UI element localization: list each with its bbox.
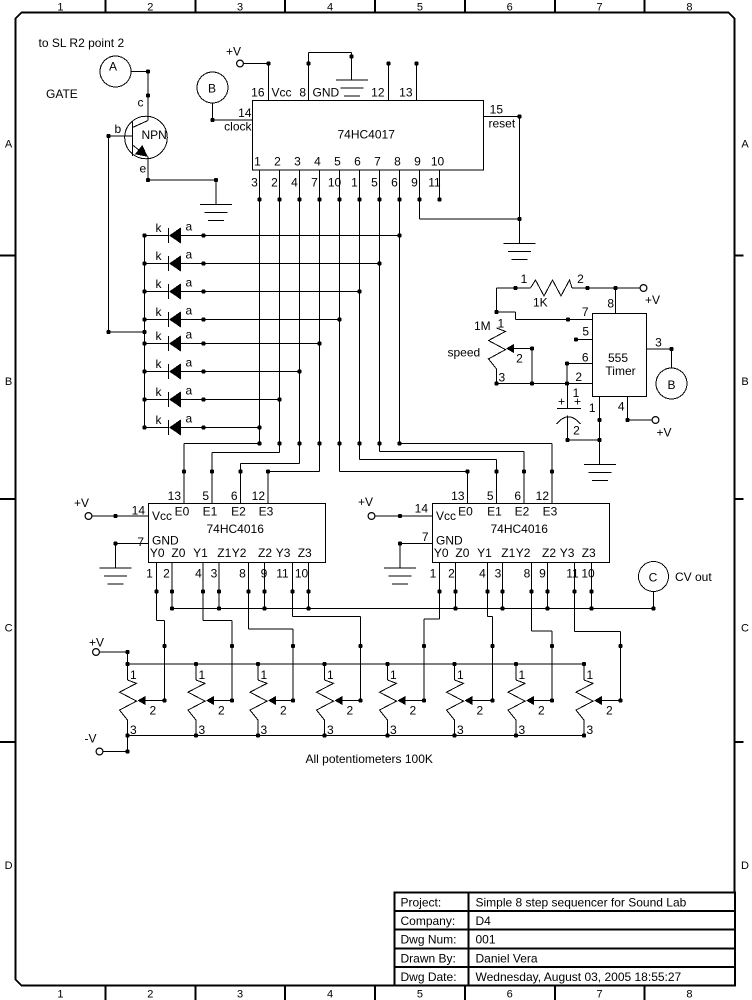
junction anode row 7 bbox=[201, 397, 205, 401]
svg-text:7: 7 bbox=[422, 530, 429, 544]
junction wiper column R7 bbox=[550, 644, 554, 648]
wire 1M top to U4 pin 7 bbox=[497, 312, 593, 320]
svg-text:8: 8 bbox=[686, 2, 692, 14]
ground (U3 pin 7) bbox=[384, 568, 416, 584]
junction R10 wiper bottom bbox=[530, 381, 534, 385]
svg-text:74HC4017: 74HC4017 bbox=[338, 128, 396, 142]
svg-text:5: 5 bbox=[202, 489, 209, 503]
LED cathode rail bbox=[144, 236, 146, 428]
junction column 5 staircase bbox=[337, 441, 341, 445]
svg-text:+V: +V bbox=[226, 45, 241, 59]
junction column 7 top bbox=[377, 197, 381, 201]
wire U3 Y3 to pot R8 wiper bbox=[575, 563, 621, 701]
wire U3 Z1 to CV bus bbox=[502, 563, 504, 609]
svg-text:2: 2 bbox=[147, 2, 153, 14]
wire U3 Y2 to pot R7 wiper bbox=[532, 563, 553, 701]
anode wire row 7 bbox=[181, 399, 280, 401]
junction column row 4 bbox=[337, 317, 341, 321]
junction U2 Z2 stub bbox=[262, 589, 266, 593]
junction wiper R1 bbox=[162, 698, 166, 702]
junction U2 Y1 stub bbox=[201, 589, 205, 593]
svg-text:k: k bbox=[156, 329, 163, 343]
svg-text:c: c bbox=[138, 96, 144, 110]
wire U1 output column 5 bbox=[339, 170, 341, 472]
junction anode row 8 bbox=[201, 425, 205, 429]
capacitor C1 electrolytic bbox=[557, 384, 582, 441]
svg-text:k: k bbox=[156, 305, 163, 319]
svg-text:a: a bbox=[186, 356, 193, 370]
svg-text:E0: E0 bbox=[458, 505, 473, 519]
junction U3 Z3 stub bbox=[589, 589, 593, 593]
svg-text:74HC4016: 74HC4016 bbox=[207, 522, 265, 536]
junction R1 top rail bbox=[125, 662, 129, 666]
junction wiper R2 bbox=[230, 698, 234, 702]
svg-text:+: + bbox=[558, 395, 565, 409]
base wire bbox=[109, 135, 133, 137]
svg-text:6: 6 bbox=[231, 489, 238, 503]
svg-text:6: 6 bbox=[507, 2, 513, 14]
junction column row 6 bbox=[297, 369, 301, 373]
svg-text:2: 2 bbox=[218, 704, 225, 718]
svg-text:12: 12 bbox=[536, 489, 550, 503]
junction pin16 wire bbox=[266, 61, 270, 65]
junction clock wire bbox=[210, 118, 214, 122]
svg-text:E2: E2 bbox=[231, 505, 246, 519]
junction E2 stub U3 bbox=[522, 469, 526, 473]
wire column 4 to U2 E3 bbox=[268, 471, 320, 473]
pot +V rail bbox=[128, 663, 585, 665]
svg-text:k: k bbox=[156, 221, 163, 235]
wire U2 Y0 to pot R1 wiper bbox=[157, 563, 165, 701]
wire U1 output column 8 bbox=[399, 170, 401, 444]
wire U1 output column 6 bbox=[359, 170, 361, 460]
wire column 1 to U2 E0 bbox=[184, 443, 260, 445]
svg-text:A: A bbox=[5, 139, 13, 151]
svg-text:Z0: Z0 bbox=[171, 546, 185, 560]
potentiometer R1 100K bbox=[120, 664, 165, 737]
junction U3 Z2 stub bbox=[545, 589, 549, 593]
svg-text:7: 7 bbox=[137, 535, 144, 549]
svg-text:14: 14 bbox=[132, 504, 146, 518]
svg-text:E1: E1 bbox=[203, 505, 218, 519]
junction anode row 6 bbox=[201, 369, 205, 373]
svg-text:2: 2 bbox=[150, 704, 157, 718]
potentiometer R3 100K bbox=[250, 664, 293, 737]
anode wire row 2 bbox=[181, 263, 380, 265]
svg-text:Y2: Y2 bbox=[516, 546, 531, 560]
wire -V to rail bbox=[103, 736, 128, 752]
junction anode row 1 bbox=[201, 233, 205, 237]
power +V for U4 pin 8 bbox=[640, 285, 660, 307]
junction wiper column R2 bbox=[230, 644, 234, 648]
svg-text:7: 7 bbox=[582, 305, 589, 319]
junction U3 Y0 stub bbox=[437, 589, 441, 593]
svg-text:3: 3 bbox=[237, 2, 243, 14]
wire pin 15 reset bbox=[484, 116, 520, 118]
junction U3 Z2 bus bbox=[545, 606, 549, 610]
potentiometer R7 100K bbox=[508, 664, 552, 737]
junction anode row 5 bbox=[201, 341, 205, 345]
wire B to 4017 pin 14 bbox=[213, 103, 253, 120]
wire U2 Z2 to CV bus bbox=[264, 563, 266, 609]
svg-text:13: 13 bbox=[168, 489, 182, 503]
junction R5 top rail bbox=[385, 662, 389, 666]
junction U2 GND wire bbox=[113, 541, 117, 545]
svg-text:8: 8 bbox=[299, 86, 306, 100]
svg-text:Daniel Vera: Daniel Vera bbox=[476, 951, 538, 965]
junction base-rail wire bbox=[106, 330, 110, 334]
junction 1M top bbox=[494, 310, 498, 314]
svg-text:9: 9 bbox=[539, 567, 546, 581]
svg-text:6: 6 bbox=[514, 489, 521, 503]
wire U1 output column 7 bbox=[379, 170, 381, 452]
wire C to bus bbox=[653, 592, 655, 609]
svg-text:1: 1 bbox=[587, 668, 594, 682]
junction column row 7 bbox=[277, 397, 281, 401]
wire E2 stub U3 bbox=[523, 452, 525, 504]
junction U2 Z0 stub bbox=[170, 589, 174, 593]
LED D3 bbox=[145, 276, 193, 300]
svg-text:k: k bbox=[156, 413, 163, 427]
junction C1 bottom bbox=[565, 438, 569, 442]
wire 1K net (pin 7 / +V row) bbox=[497, 288, 641, 312]
junction U2 Z1 stub bbox=[217, 589, 221, 593]
junction pin8 ground wire bbox=[349, 54, 353, 58]
wire U3 Z3 to CV bus bbox=[591, 563, 593, 609]
svg-text:10: 10 bbox=[431, 155, 445, 169]
junction anode row 3 bbox=[201, 289, 205, 293]
svg-text:k: k bbox=[156, 249, 163, 263]
svg-text:a: a bbox=[186, 304, 193, 318]
junction R10 wiper bbox=[530, 346, 534, 350]
svg-text:D: D bbox=[5, 860, 13, 872]
junction rail row 4 bbox=[142, 317, 146, 321]
junction R6 top rail bbox=[452, 662, 456, 666]
junction column 1 staircase bbox=[257, 441, 261, 445]
junction column row 8 bbox=[257, 425, 261, 429]
wire U1 output column 2 bbox=[279, 170, 281, 453]
svg-text:speed: speed bbox=[448, 346, 481, 360]
junction wiper R3 bbox=[291, 698, 295, 702]
svg-text:Company:: Company: bbox=[401, 914, 456, 928]
svg-text:11: 11 bbox=[566, 567, 579, 581]
junction column 8 top bbox=[397, 197, 401, 201]
wire E3 stub U3 bbox=[551, 444, 553, 504]
svg-text:2: 2 bbox=[163, 567, 170, 581]
svg-text:2: 2 bbox=[606, 704, 613, 718]
anode wire row 1 bbox=[181, 235, 400, 237]
svg-text:13: 13 bbox=[451, 489, 465, 503]
junction column row 3 bbox=[357, 289, 361, 293]
svg-text:6: 6 bbox=[582, 351, 589, 365]
junction R5 bottom rail bbox=[385, 733, 389, 737]
wire U3 Y0 to pot R5 wiper bbox=[424, 563, 440, 701]
svg-text:E0: E0 bbox=[175, 505, 190, 519]
svg-text:3: 3 bbox=[327, 723, 334, 737]
svg-text:GND: GND bbox=[313, 86, 340, 100]
svg-text:1: 1 bbox=[519, 668, 526, 682]
svg-text:9: 9 bbox=[414, 155, 421, 169]
potentiometer R6 100K bbox=[447, 664, 493, 737]
svg-text:+V: +V bbox=[358, 495, 373, 509]
svg-text:7: 7 bbox=[374, 155, 381, 169]
svg-text:3: 3 bbox=[211, 567, 218, 581]
svg-text:7: 7 bbox=[597, 2, 603, 14]
IC U1 74HC4017 bbox=[253, 101, 484, 171]
svg-text:a: a bbox=[186, 328, 193, 342]
svg-text:2: 2 bbox=[280, 704, 287, 718]
svg-text:Project:: Project: bbox=[401, 896, 442, 910]
junction dot collector bbox=[146, 93, 150, 97]
wire +V to pin 16 bbox=[244, 64, 269, 101]
wire U4 pin 8 bbox=[615, 288, 617, 314]
junction wiper R7 bbox=[550, 698, 554, 702]
pin 13 stub bbox=[416, 64, 418, 101]
svg-text:12: 12 bbox=[371, 86, 385, 100]
junction pin 2/6 tie bbox=[565, 381, 569, 385]
svg-text:B: B bbox=[741, 376, 748, 388]
svg-text:1: 1 bbox=[261, 668, 268, 682]
junction U2 Y0 stub bbox=[154, 589, 158, 593]
anode wire row 4 bbox=[181, 319, 340, 321]
junction rail row 8 bbox=[142, 425, 146, 429]
ground (U4 pin 1) bbox=[584, 465, 616, 481]
wire column 2 to U2 E1 bbox=[212, 452, 280, 454]
svg-text:1: 1 bbox=[521, 272, 528, 286]
svg-text:1: 1 bbox=[130, 668, 137, 682]
junction wiper R6 bbox=[490, 698, 494, 702]
potentiometer R10 1M speed bbox=[489, 317, 533, 385]
wire U4 pin 5 stub bbox=[576, 339, 593, 341]
junction wiper R8 bbox=[618, 698, 622, 702]
junction column row 1 bbox=[397, 233, 401, 237]
svg-text:E1: E1 bbox=[487, 505, 502, 519]
junction pin 4 wire bbox=[625, 418, 629, 422]
svg-text:a: a bbox=[186, 384, 193, 398]
svg-text:3: 3 bbox=[495, 567, 502, 581]
potentiometer R2 100K bbox=[188, 664, 232, 737]
wire U3 Y1 to pot R6 wiper bbox=[488, 563, 493, 701]
junction U2 Z3 stub bbox=[306, 589, 310, 593]
svg-text:GATE: GATE bbox=[46, 87, 78, 101]
junction E3 stub U2 bbox=[266, 469, 270, 473]
wire U2 Y3 to pot R4 wiper bbox=[293, 563, 361, 701]
junction column 8 staircase bbox=[397, 441, 401, 445]
wire U1 output column 4 bbox=[319, 170, 321, 472]
svg-text:a: a bbox=[186, 248, 193, 262]
wire column 3 to U2 E2 bbox=[241, 463, 300, 465]
wire U2 pin 7 to ground bbox=[116, 544, 149, 569]
wire +V to U3 pin 14 bbox=[375, 515, 433, 517]
LED D5 bbox=[145, 328, 193, 352]
title block bbox=[395, 893, 736, 986]
wire U3 pin 7 to ground bbox=[400, 544, 433, 569]
svg-text:3: 3 bbox=[390, 723, 397, 737]
terminal A (gate output) bbox=[100, 56, 131, 87]
junction rail row 3 bbox=[142, 289, 146, 293]
svg-text:3: 3 bbox=[587, 723, 594, 737]
power -V for pots bbox=[85, 732, 103, 755]
wire R10 wiper to pin 3 net bbox=[531, 349, 533, 384]
svg-text:Timer: Timer bbox=[605, 364, 635, 378]
junction wiper column R8 bbox=[618, 644, 622, 648]
svg-text:001: 001 bbox=[476, 933, 496, 947]
svg-text:+V: +V bbox=[645, 293, 660, 307]
svg-text:1: 1 bbox=[457, 668, 464, 682]
svg-text:3: 3 bbox=[519, 723, 526, 737]
LED D6 bbox=[145, 356, 193, 380]
junction on collector wire bbox=[146, 69, 150, 73]
junction column 6 top bbox=[357, 197, 361, 201]
junction U3 Z0 bus bbox=[453, 606, 457, 610]
junction R4 bottom rail bbox=[322, 733, 326, 737]
svg-text:3: 3 bbox=[130, 723, 137, 737]
junction column 7 staircase bbox=[377, 441, 381, 445]
wire +V to rail bbox=[100, 652, 128, 664]
svg-text:Y0: Y0 bbox=[150, 546, 165, 560]
svg-text:E2: E2 bbox=[515, 505, 530, 519]
wire U2 Z3 to CV bus bbox=[308, 563, 310, 609]
svg-text:8: 8 bbox=[239, 567, 246, 581]
junction wiper column R1 bbox=[162, 644, 166, 648]
wire U2 Z1 to CV bus bbox=[218, 563, 220, 609]
svg-text:1: 1 bbox=[146, 567, 153, 581]
ground (reset) bbox=[504, 244, 536, 260]
wire U2 Y2 to pot R3 wiper bbox=[249, 563, 294, 701]
svg-text:1K: 1K bbox=[533, 296, 548, 310]
svg-text:1: 1 bbox=[351, 176, 358, 190]
svg-text:74HC4016: 74HC4016 bbox=[491, 522, 549, 536]
svg-text:3: 3 bbox=[457, 723, 464, 737]
junction R1 bottom rail bbox=[125, 733, 129, 737]
svg-text:2: 2 bbox=[274, 155, 281, 169]
svg-text:5: 5 bbox=[417, 2, 423, 14]
svg-text:14: 14 bbox=[238, 106, 252, 120]
power +V for U3 bbox=[358, 495, 375, 519]
svg-text:A: A bbox=[741, 139, 749, 151]
junction +V wire bbox=[125, 650, 129, 654]
junction wiper column R3 bbox=[291, 644, 295, 648]
svg-text:3: 3 bbox=[655, 336, 662, 350]
junction U3 Y2 stub bbox=[529, 589, 533, 593]
junction on cathode rail bbox=[142, 330, 146, 334]
svg-text:3: 3 bbox=[261, 723, 268, 737]
svg-text:2: 2 bbox=[477, 704, 484, 718]
junction column 4 top bbox=[317, 197, 321, 201]
svg-text:Z2: Z2 bbox=[542, 546, 556, 560]
junction wiper R4 bbox=[358, 698, 362, 702]
svg-text:10: 10 bbox=[581, 567, 595, 581]
potentiometer R8 100K bbox=[576, 664, 621, 737]
svg-text:5: 5 bbox=[487, 489, 494, 503]
svg-text:555: 555 bbox=[608, 351, 628, 365]
junction anode row 2 bbox=[201, 261, 205, 265]
IC U4 555 Timer bbox=[593, 314, 647, 397]
svg-text:1: 1 bbox=[390, 668, 397, 682]
svg-text:2: 2 bbox=[271, 176, 278, 190]
anode wire row 5 bbox=[181, 343, 320, 345]
junction E3 stub U3 bbox=[550, 469, 554, 473]
junction U3 Z3 bus bbox=[589, 606, 593, 610]
junction pin 3 wire bbox=[669, 347, 673, 351]
junction E0 stub U3 bbox=[465, 469, 469, 473]
svg-text:k: k bbox=[156, 385, 163, 399]
svg-text:Vcc: Vcc bbox=[436, 509, 456, 523]
svg-text:E3: E3 bbox=[259, 505, 274, 519]
junction R6 bottom rail bbox=[452, 733, 456, 737]
svg-text:2: 2 bbox=[448, 567, 455, 581]
svg-text:b: b bbox=[115, 122, 122, 136]
svg-text:5: 5 bbox=[371, 176, 378, 190]
junction R8 top rail bbox=[582, 662, 586, 666]
junction rail row 6 bbox=[142, 369, 146, 373]
svg-text:1: 1 bbox=[199, 668, 206, 682]
svg-text:Z0: Z0 bbox=[455, 546, 469, 560]
svg-text:k: k bbox=[156, 277, 163, 291]
svg-text:B: B bbox=[667, 378, 675, 392]
junction reset corner bbox=[517, 217, 521, 221]
svg-text:13: 13 bbox=[399, 86, 413, 100]
svg-text:7: 7 bbox=[311, 176, 318, 190]
junction U2 Y2 stub bbox=[246, 589, 250, 593]
junction pin8 wire bbox=[306, 61, 310, 65]
svg-text:C: C bbox=[649, 571, 658, 585]
svg-text:B: B bbox=[5, 376, 12, 388]
svg-text:Vcc: Vcc bbox=[272, 86, 292, 100]
svg-text:5: 5 bbox=[334, 155, 341, 169]
svg-text:8: 8 bbox=[524, 567, 531, 581]
svg-text:2: 2 bbox=[147, 989, 153, 1000]
junction rail row 7 bbox=[142, 397, 146, 401]
svg-text:A: A bbox=[109, 60, 117, 74]
anode wire row 8 bbox=[181, 427, 260, 429]
junction pin 1 wire bbox=[597, 418, 601, 422]
junction wiper column R4 bbox=[358, 644, 362, 648]
svg-text:to SL R2 point 2: to SL R2 point 2 bbox=[39, 36, 125, 50]
svg-text:15: 15 bbox=[490, 103, 504, 117]
wire GATE/base down to LED cathode rail bbox=[109, 136, 145, 332]
svg-text:5: 5 bbox=[417, 989, 423, 1000]
svg-text:2: 2 bbox=[410, 704, 417, 718]
junction column row 5 bbox=[317, 341, 321, 345]
junction U3 Z0 stub bbox=[453, 589, 457, 593]
wire C1 to U4 pin 1 bbox=[568, 439, 600, 441]
wire terminal A to collector net bbox=[131, 72, 148, 121]
svg-text:4: 4 bbox=[314, 155, 321, 169]
svg-text:C: C bbox=[5, 623, 13, 635]
wire U3 Z0 to CV bus bbox=[455, 563, 457, 609]
svg-text:Z1: Z1 bbox=[501, 546, 515, 560]
svg-text:3: 3 bbox=[237, 989, 243, 1000]
ground (U2 pin 7) bbox=[100, 568, 132, 584]
svg-text:4: 4 bbox=[618, 400, 625, 414]
svg-text:Y1: Y1 bbox=[193, 546, 208, 560]
svg-text:a: a bbox=[186, 276, 193, 290]
svg-text:+V: +V bbox=[656, 426, 671, 440]
svg-text:a: a bbox=[186, 412, 193, 426]
junction U2 Z0 bus bbox=[170, 606, 174, 610]
svg-text:1: 1 bbox=[589, 401, 596, 415]
junction base wire bbox=[106, 134, 110, 138]
junction rail row 1 bbox=[142, 233, 146, 237]
svg-text:11: 11 bbox=[276, 567, 289, 581]
junction R3 top rail bbox=[256, 662, 260, 666]
junction pin 8 wire bbox=[613, 286, 617, 290]
svg-text:1M: 1M bbox=[474, 319, 491, 333]
wire U4 pin 3 to terminal B bbox=[647, 349, 672, 368]
svg-text:3: 3 bbox=[499, 371, 506, 385]
terminal B (clock input) bbox=[197, 72, 228, 103]
